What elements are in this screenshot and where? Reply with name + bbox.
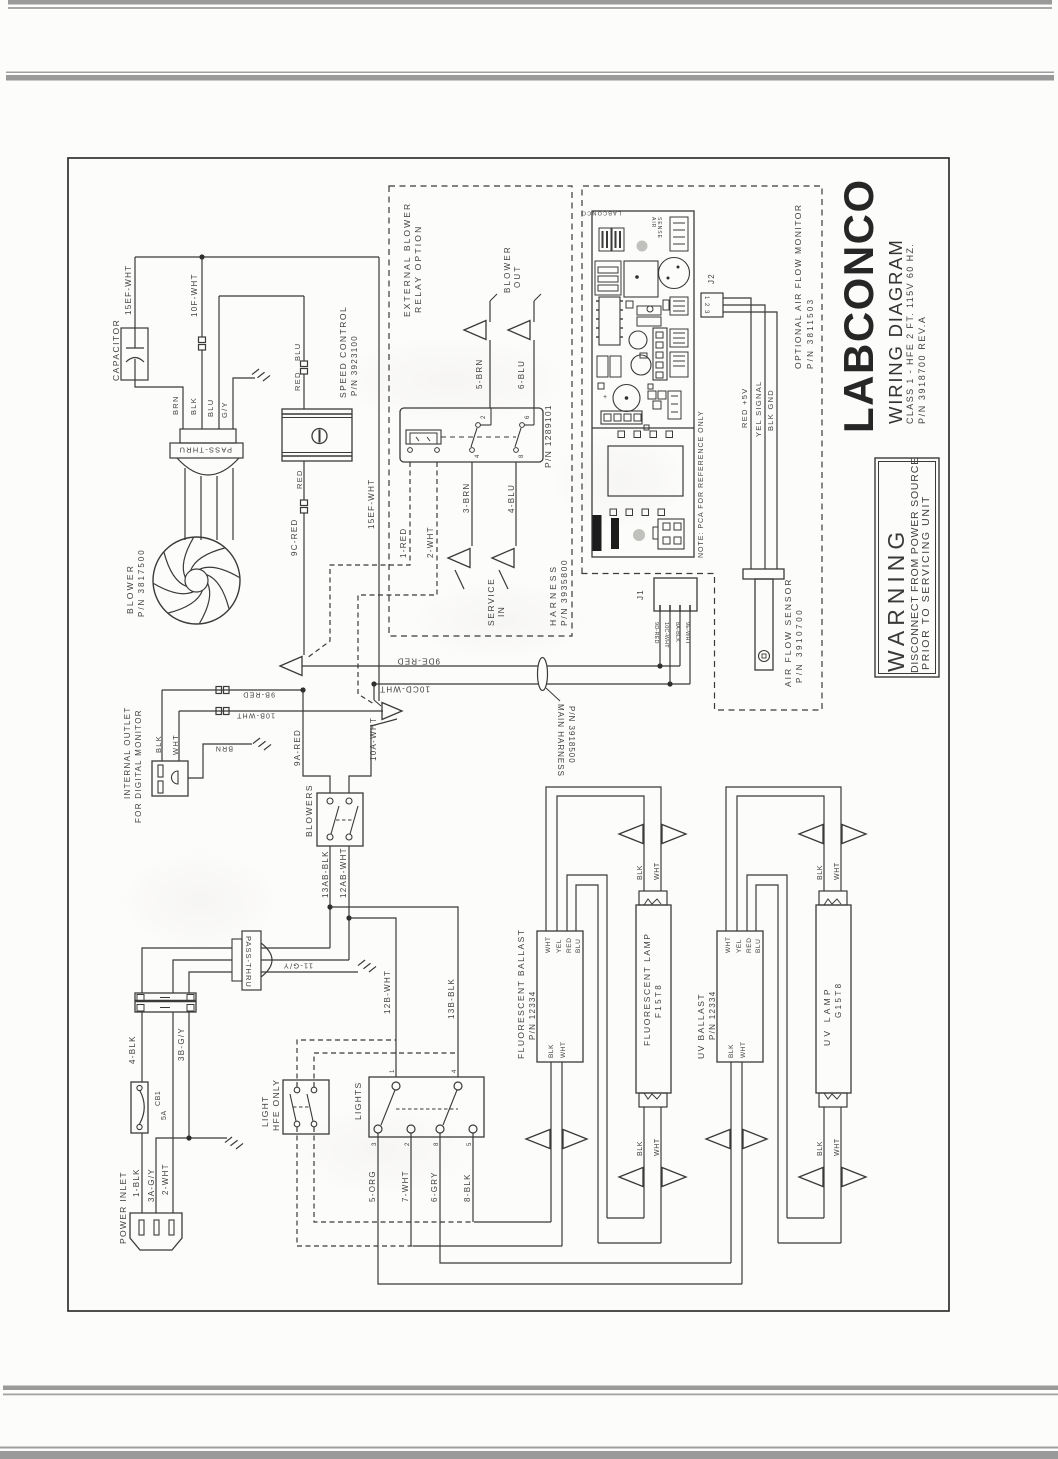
svg-text:BRN: BRN (215, 745, 233, 752)
PCB section divider (592, 427, 694, 429)
ground at inlet (225, 1137, 232, 1143)
svg-text:RED: RED (295, 469, 304, 489)
svg-text:13AB-BLK: 13AB-BLK (321, 850, 330, 898)
PCB dashed boundary (582, 186, 822, 710)
svg-text:RELAY OPTION: RELAY OPTION (413, 225, 423, 313)
page header rule (8, 7, 1052, 9)
svg-text:WHT: WHT (545, 936, 552, 953)
wire 10A-WHT (349, 719, 397, 793)
svg-text:12AB-WHT: 12AB-WHT (339, 847, 348, 898)
PCB board outline (592, 211, 694, 557)
wire 3B-G/Y (188, 1012, 190, 1138)
long wire 10CD-WHT (374, 683, 690, 685)
wire 7-WHT (410, 1133, 412, 1246)
wire 6-GRY (440, 1133, 731, 1263)
svg-text:INTERNAL OUTLET: INTERNAL OUTLET (123, 706, 132, 799)
page footer bar upper (3, 1386, 1058, 1391)
svg-text:WHT: WHT (740, 1041, 747, 1058)
wire 13AB-BLK (329, 846, 331, 948)
dashed wire hfe bottom 1 (314, 1127, 474, 1222)
flag connector on 9-RED (280, 657, 302, 676)
svg-text:FOR DIGITAL MONITOR: FOR DIGITAL MONITOR (134, 709, 143, 823)
wire BRN capacitor to pass-thru (135, 380, 183, 429)
lamp bottom leads (643, 1107, 645, 1218)
svg-text:1-BLK: 1-BLK (132, 1168, 141, 1197)
PCB transistors (629, 331, 647, 349)
external blower relay option dashed box (389, 186, 572, 636)
svg-text:OPTIONAL AIR FLOW MONITOR: OPTIONAL AIR FLOW MONITOR (793, 204, 803, 370)
svg-text:9E-WHT: 9E-WHT (684, 622, 690, 645)
lamp top disconnect flags (619, 825, 643, 844)
PCB relay square (624, 261, 658, 297)
lamp bottom disconnect flags (799, 1168, 823, 1187)
circuit breaker CB1 (131, 1082, 148, 1133)
svg-text:3B-G/Y: 3B-G/Y (177, 1027, 186, 1061)
PCB resistors (637, 306, 661, 315)
svg-text:G15T8: G15T8 (834, 982, 843, 1018)
lamp bottom leads (823, 1107, 825, 1218)
ballast bottom disconnect flags (526, 1130, 550, 1149)
page footer rule upper (3, 1394, 1058, 1396)
wire G/Y with ground (233, 378, 255, 429)
capacitor C1 box (121, 328, 148, 380)
svg-text:P/N 3910700: P/N 3910700 (795, 608, 804, 683)
PCB electrolytic cap (613, 385, 640, 412)
wire 13AB to lights (330, 907, 458, 1077)
svg-text:EXTERNAL BLOWER: EXTERNAL BLOWER (402, 202, 412, 317)
wire 5-ORG (378, 1133, 742, 1284)
relay armature dashed (441, 436, 516, 438)
svg-text:J1: J1 (636, 589, 645, 600)
PCB bottom right connector (658, 519, 684, 549)
relay box P/N 1289101 (400, 408, 543, 462)
dashed wire hfe top 1 (297, 1040, 396, 1087)
main harness leader (546, 688, 560, 701)
wire ballast YEL to lamp (557, 796, 644, 931)
svg-text:10B-WHT: 10B-WHT (236, 712, 275, 719)
junction dots on harness wires (657, 663, 662, 668)
relay coil (406, 430, 441, 444)
wires through pass-thru 2 (142, 948, 232, 993)
svg-text:15EF-WHT: 15EF-WHT (124, 265, 133, 315)
top rail wire 15EF-WHT (135, 256, 379, 258)
svg-text:4-BLK: 4-BLK (128, 1035, 137, 1064)
relay coil pins (408, 448, 413, 453)
svg-text:LABCONCO: LABCONCO (581, 210, 621, 216)
PCB dip switches (599, 228, 611, 251)
wire 12AB-WHT (348, 846, 350, 960)
capacitor symbol (134, 328, 136, 348)
svg-text:WHT: WHT (654, 862, 661, 880)
wire capacitor to top rail (134, 257, 136, 328)
svg-text:10A-WHT: 10A-WHT (369, 717, 378, 761)
wire ballast RED staple (567, 875, 607, 1218)
svg-text:BLK: BLK (817, 865, 824, 880)
svg-text:BLK: BLK (189, 397, 198, 415)
svg-text:NOTE: PCA FOR REFERENCE ONLY: NOTE: PCA FOR REFERENCE ONLY (698, 410, 705, 558)
svg-text:RED +5V: RED +5V (740, 387, 749, 428)
flag connector 10-WHT (373, 684, 375, 700)
svg-text:G/Y: G/Y (220, 401, 229, 418)
ground symbol G/Y (252, 369, 259, 375)
svg-text:BLK GND: BLK GND (766, 389, 775, 431)
svg-text:+: + (603, 394, 607, 401)
PCB misc small parts (626, 301, 633, 308)
svg-text:F15T8: F15T8 (654, 983, 663, 1018)
lamp bottom disconnect flags (619, 1168, 643, 1187)
svg-text:P/N 12334: P/N 12334 (708, 990, 717, 1040)
wire 12AB to lights (349, 918, 396, 1077)
svg-text:9A-RED: 9A-RED (293, 729, 302, 766)
svg-text:3A-G/Y: 3A-G/Y (147, 1168, 156, 1202)
relay pole 1 (470, 448, 475, 453)
svg-text:AIR: AIR (650, 217, 656, 228)
svg-text:SERVICE: SERVICE (486, 578, 496, 626)
svg-text:OUT: OUT (513, 265, 522, 289)
wire 15EF-WHT right drop (378, 257, 380, 701)
svg-text:LABCONCO: LABCONCO (835, 178, 882, 433)
wire 10B-WHT (179, 710, 383, 712)
svg-text:15EF-WHT: 15EF-WHT (367, 479, 376, 529)
PCB right connector 2 (668, 391, 681, 419)
svg-text:AIR FLOW SENSOR: AIR FLOW SENSOR (783, 578, 793, 687)
wire 1-BLK CB1 to inlet (141, 1133, 143, 1213)
svg-text:FLUORESCENT BALLAST: FLUORESCENT BALLAST (516, 929, 526, 1059)
svg-text:WHT: WHT (171, 734, 180, 755)
svg-text:BLU: BLU (293, 343, 302, 362)
svg-text:RED: RED (293, 371, 302, 391)
PCB small cluster (648, 391, 656, 399)
wire BLU (218, 296, 220, 429)
PCB drill hole (637, 241, 648, 252)
svg-text:P/N 3935800: P/N 3935800 (559, 559, 569, 626)
wire ballast BLU staple (756, 885, 778, 1243)
page second rule (6, 72, 1054, 74)
svg-text:BLK: BLK (637, 1141, 644, 1156)
pass-thru bushing 2 (242, 931, 261, 990)
svg-text:WHT: WHT (725, 936, 732, 953)
internal outlet (152, 761, 188, 796)
PCB drill hole 2 (633, 529, 645, 541)
svg-text:POWER INLET: POWER INLET (118, 1171, 128, 1244)
svg-text:IN: IN (496, 606, 506, 617)
blower fan (153, 537, 240, 624)
svg-text:3-BRN: 3-BRN (462, 482, 471, 513)
wire BLU-RED to speed control (303, 296, 305, 361)
svg-text:YEL SIGNAL: YEL SIGNAL (754, 381, 763, 438)
svg-text:CAPACITOR: CAPACITOR (111, 319, 121, 381)
PCB header 3-bar (595, 261, 621, 295)
blower out wire 6-BLU (533, 340, 535, 408)
svg-text:MAIN HARNESS: MAIN HARNESS (556, 704, 565, 777)
wire 2-WHT long (172, 1012, 174, 1213)
PCB pad row 2 (610, 509, 617, 516)
svg-text:6-BLU: 6-BLU (517, 360, 526, 389)
svg-text:11-G/Y: 11-G/Y (283, 962, 313, 971)
svg-text:BLOWERS: BLOWERS (304, 784, 314, 837)
svg-text:P/N 3817500: P/N 3817500 (137, 548, 146, 617)
PCB black bars (593, 515, 602, 551)
long wire 9DE-RED (302, 665, 680, 667)
PCB DIP IC (599, 297, 620, 345)
ballast bottom disconnect flags (706, 1130, 730, 1149)
svg-text:8-BLK: 8-BLK (463, 1173, 472, 1202)
lamp bottom loop wires (607, 1217, 644, 1219)
svg-text:1-RED: 1-RED (399, 527, 408, 558)
relay coil dashed wire 2-WHT (358, 462, 437, 704)
svg-text:SPEED CONTROL: SPEED CONTROL (338, 306, 348, 398)
terminal strip (135, 993, 196, 1012)
svg-text:WHT: WHT (560, 1041, 567, 1058)
svg-text:BLK: BLK (637, 865, 644, 880)
svg-text:9D-RED: 9D-RED (653, 622, 659, 644)
svg-text:10F-WHT: 10F-WHT (190, 273, 199, 317)
svg-text:1 2 3: 1 2 3 (703, 296, 709, 314)
svg-text:BRN: BRN (171, 395, 180, 415)
svg-text:RED: RED (746, 937, 753, 953)
PCB pad row 1 (618, 431, 625, 438)
lamp bottom loop wires (787, 1217, 824, 1219)
service in wire 4-BLU (515, 462, 517, 546)
svg-text:BLU: BLU (755, 939, 762, 953)
PCB small resistors (597, 356, 608, 377)
svg-text:PASS-THRU: PASS-THRU (244, 936, 253, 988)
svg-text:BLK: BLK (728, 1044, 735, 1058)
svg-text:UV LAMP: UV LAMP (822, 986, 832, 1046)
wire 10F-WHT (201, 257, 203, 337)
svg-text:9B-RED: 9B-RED (242, 691, 275, 698)
light hfe only switch (283, 1080, 329, 1134)
dashed wire hfe bottom 2 (297, 1127, 413, 1246)
svg-text:J2: J2 (707, 273, 716, 284)
svg-text:UV BALLAST: UV BALLAST (696, 993, 706, 1059)
svg-text:BLOWER: BLOWER (503, 245, 512, 293)
svg-text:PASS-THRU: PASS-THRU (178, 446, 232, 455)
svg-text:5-BRN: 5-BRN (475, 358, 484, 389)
air flow sensor (743, 569, 784, 579)
pass-thru bushing at blower (180, 429, 236, 443)
ballast bottom leads (550, 1062, 552, 1222)
ground 11-G/Y (358, 960, 365, 966)
connector J2 (701, 293, 723, 317)
lamp top disconnect flags (799, 825, 823, 844)
wire ballast RED staple (747, 875, 787, 1218)
svg-text:WHT: WHT (834, 862, 841, 880)
svg-text:LIGHTS: LIGHTS (353, 1081, 363, 1120)
svg-text:HFE ONLY: HFE ONLY (271, 1079, 281, 1131)
lamp UV LAMP (819, 891, 847, 905)
junction dot (199, 254, 204, 259)
svg-text:BLK: BLK (154, 735, 163, 753)
PCB display window (608, 446, 683, 496)
page footer rule lower (0, 1447, 1058, 1449)
svg-text:LIGHT: LIGHT (260, 1095, 270, 1127)
dashed wire hfe top 2 (314, 1053, 458, 1087)
svg-text:2-WHT: 2-WHT (161, 1163, 170, 1195)
ground at outlet (253, 738, 260, 744)
blower out wire 5-BRN (489, 340, 491, 408)
diagram frame border (68, 158, 949, 1311)
svg-text:BLOWER: BLOWER (125, 564, 135, 614)
ballast bottom leads (730, 1062, 732, 1263)
svg-text:WIRING DIAGRAM: WIRING DIAGRAM (885, 238, 906, 424)
PCB bottom header (601, 411, 642, 424)
relay coil dashed wire 1-RED (307, 462, 410, 658)
outlet ground wire BRN (188, 744, 252, 778)
svg-text:BLK: BLK (817, 1141, 824, 1156)
svg-text:P/N 3811503: P/N 3811503 (806, 298, 815, 369)
PCB mid connector (653, 328, 667, 380)
warning box (875, 458, 939, 677)
wire ballast WHT to lamp (546, 787, 661, 931)
wire ballast WHT to lamp (726, 787, 841, 931)
svg-text:4-BLU: 4-BLU (507, 484, 516, 513)
svg-text:FLUORESCENT LAMP: FLUORESCENT LAMP (642, 933, 652, 1046)
outlet WHT lead (178, 711, 180, 761)
svg-text:10C-WHT: 10C-WHT (663, 622, 669, 648)
outlet BLK lead (161, 690, 163, 761)
wire ballast BLU staple (576, 885, 598, 1243)
svg-text:P/N 3918500: P/N 3918500 (567, 706, 576, 764)
svg-text:5-ORG: 5-ORG (368, 1170, 377, 1202)
svg-text:7-WHT: 7-WHT (401, 1170, 410, 1202)
svg-text:WHT: WHT (654, 1138, 661, 1156)
svg-text:P/N 3923100: P/N 3923100 (350, 335, 359, 396)
blower motor leads (184, 468, 186, 540)
svg-text:CLASS 1 - HFE 2 FT. 115V 60: CLASS 1 - HFE 2 FT. 115V 60 HZ. (905, 243, 915, 424)
wire 3A-G/Y inlet (156, 1138, 227, 1213)
svg-text:12B-WHT: 12B-WHT (383, 970, 392, 1014)
svg-text:P/N 3918700 REV.A: P/N 3918700 REV.A (917, 316, 927, 424)
svg-text:WHT: WHT (834, 1138, 841, 1156)
svg-text:2-WHT: 2-WHT (426, 526, 435, 558)
wire 8-BLK (472, 1133, 474, 1222)
connector J1 (654, 578, 697, 611)
svg-text:BLU: BLU (206, 399, 215, 418)
PCB right connectors (670, 297, 688, 315)
svg-text:13B-BLK: 13B-BLK (447, 978, 456, 1019)
svg-text:WARNING: WARNING (883, 527, 909, 672)
service in wire 3-BRN (471, 462, 473, 546)
J2 wires to sensor (723, 298, 751, 569)
wire 9B-RED (162, 689, 303, 691)
wire 4-BLK strip to CB1 (141, 1012, 143, 1082)
power inlet (130, 1213, 182, 1250)
wire 9C-RED below speed control (303, 461, 305, 500)
svg-text:BLK: BLK (548, 1044, 555, 1058)
PCB top right connector (670, 217, 688, 251)
svg-text:PRIOR TO SERVICING UNIT: PRIOR TO SERVICING UNIT (920, 495, 932, 670)
svg-text:HARNESS: HARNESS (548, 564, 558, 626)
wire ballast YEL to lamp (737, 796, 824, 931)
svg-text:YEL: YEL (736, 939, 743, 953)
svg-text:P/N 1289101: P/N 1289101 (543, 404, 553, 468)
PCB big circle (659, 258, 690, 289)
lamp FLUORESCENT LAMP (639, 891, 667, 905)
svg-text:SENSE: SENSE (656, 217, 662, 239)
svg-text:YEL: YEL (556, 939, 563, 953)
svg-text:CB1: CB1 (155, 1091, 162, 1106)
wire 9A-RED (303, 690, 330, 793)
blowers switch (317, 793, 363, 846)
relay pole 2 (514, 448, 519, 453)
svg-text:RED: RED (566, 937, 573, 953)
svg-text:5A: 5A (161, 1110, 168, 1120)
svg-text:P/N 12334: P/N 12334 (528, 990, 537, 1040)
svg-text:10CD-WHT: 10CD-WHT (379, 685, 430, 694)
page second bar (6, 75, 1054, 81)
ballast UV BALLAST (717, 931, 763, 1062)
svg-text:8A-BLK: 8A-BLK (674, 622, 680, 642)
speed control box (282, 409, 352, 461)
page header bar top (8, 0, 1052, 5)
second rail wire (219, 295, 304, 297)
page footer bar bottom (0, 1451, 1058, 1459)
lights switch (369, 1077, 484, 1137)
speed control knob (312, 429, 327, 444)
svg-text:6-GRY: 6-GRY (430, 1171, 439, 1202)
ballast FLUORESCENT BALLAST (537, 931, 583, 1062)
main harness oval (538, 658, 548, 691)
J1 wires down (659, 611, 661, 666)
svg-text:9DE-RED: 9DE-RED (396, 657, 440, 666)
svg-text:9C-RED: 9C-RED (290, 518, 299, 556)
svg-text:BLU: BLU (575, 939, 582, 953)
